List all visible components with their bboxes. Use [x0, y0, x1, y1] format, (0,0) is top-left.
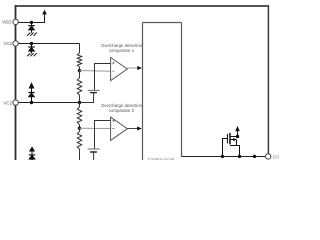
svg-text:Control circuit: Control circuit	[148, 157, 175, 160]
internal VDD arrow	[42, 10, 47, 15]
wire battery B2 down (cut off)	[93, 152, 95, 160]
body arrow head	[233, 138, 237, 141]
source/body arrow lead	[230, 139, 234, 141]
resistor R4	[77, 128, 81, 160]
diode D3 (VC2 up, with arrow to VDD rail)	[28, 83, 34, 102]
resistor R2	[77, 71, 81, 103]
svg-text:comparator 1: comparator 1	[109, 48, 135, 53]
svg-text:DO: DO	[273, 154, 280, 159]
VDD arrow (drain)	[235, 126, 240, 131]
wire VC2	[18, 102, 80, 104]
diode D4 with arrow (bottom, cut off)	[29, 147, 35, 160]
terminal VDD	[13, 19, 18, 24]
node source tie	[238, 155, 241, 158]
wire VSS rail (bottom)	[182, 156, 266, 158]
IC outline left edge	[15, 5, 17, 160]
node divider1 tap	[78, 69, 81, 72]
wire VDD	[18, 14, 45, 23]
IC outline top edge	[15, 5, 270, 7]
logic block right edge	[181, 23, 183, 157]
wire tap1 to comparator 1 inverting input	[80, 70, 111, 73]
ground (VC1 diode)	[27, 53, 37, 56]
diode D2 (VC1 to ground)	[28, 44, 34, 54]
source lead	[230, 146, 240, 157]
ground (VDD diode)	[27, 33, 37, 36]
channel bar	[229, 133, 231, 145]
wire battery B1 to VC2	[80, 93, 94, 103]
reference battery B1	[88, 89, 100, 91]
wire reference 1 to comparator 1 non-inverting input	[95, 64, 111, 91]
node drain	[236, 135, 239, 138]
wire VC1	[18, 43, 80, 45]
svg-text:comparator 2: comparator 2	[109, 108, 135, 113]
comparator 1 output arrow into logic	[137, 66, 142, 70]
transistor Q1 (internal MOSFET)	[223, 133, 240, 157]
drain lead	[230, 136, 238, 138]
node VC2 junction	[30, 101, 33, 104]
node gate tie	[221, 155, 224, 158]
resistor R3	[77, 103, 81, 129]
wire drain to VDD arrow	[237, 131, 239, 137]
wire reference 2 to comparator 2 non-inverting input	[95, 121, 111, 150]
terminal VC1	[13, 41, 18, 46]
diode D1 (VDD to ground)	[28, 22, 34, 32]
comparator 1 input polarity marks	[112, 62, 114, 71]
wire tap2 to comparator 2 inverting input	[80, 127, 111, 129]
body tie vertical	[236, 140, 238, 146]
svg-text:VC1: VC1	[3, 41, 12, 46]
node divider2 tap	[78, 127, 81, 130]
gate wire	[223, 139, 228, 157]
node output tie	[253, 155, 256, 158]
logic block top edge	[143, 22, 182, 24]
logic block left edge	[142, 23, 144, 161]
node VC1 junction	[30, 42, 33, 45]
IC outline right edge	[267, 6, 269, 154]
gate bar	[227, 134, 229, 143]
reference battery B2	[88, 148, 100, 150]
comparator 2 input polarity marks	[112, 120, 114, 129]
op-amp U1 (overcharge detection comparator 1)	[111, 57, 128, 80]
svg-text:VDD: VDD	[2, 20, 12, 25]
node divider1 bottom (VC2)	[78, 101, 81, 104]
wire comparator 1 output	[127, 67, 137, 69]
svg-text:VC2: VC2	[3, 100, 12, 105]
terminal DO	[266, 154, 271, 159]
terminal VC2	[13, 100, 18, 105]
wire comparator 2 output	[127, 128, 137, 130]
comparator 2 output arrow into logic	[137, 126, 142, 130]
resistor R1	[77, 44, 81, 71]
op-amp U2 (overcharge detection comparator 2)	[111, 117, 128, 140]
node VDD junction	[30, 21, 33, 24]
